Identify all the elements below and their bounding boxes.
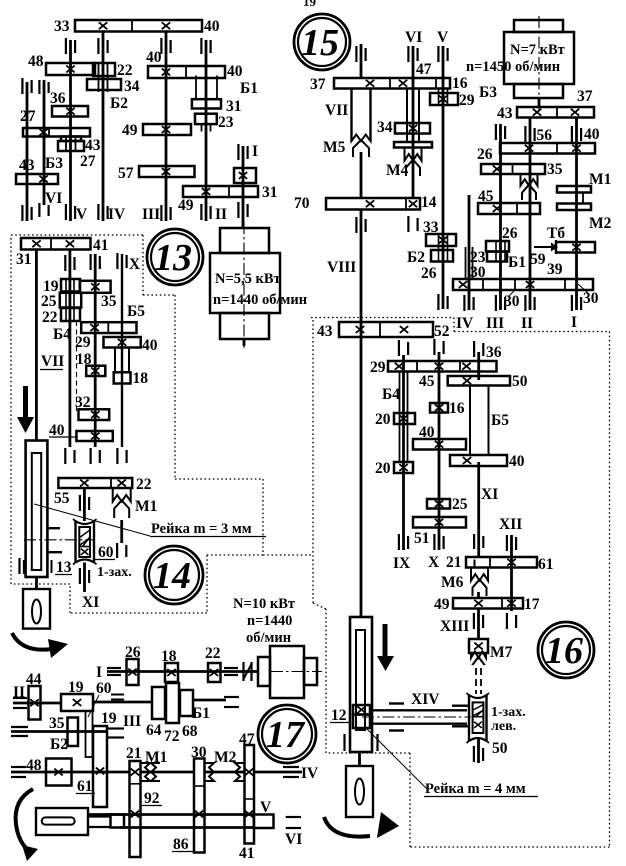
svg-text:20: 20 [375, 411, 391, 428]
svg-text:40: 40 [204, 18, 220, 35]
svg-text:26: 26 [125, 644, 141, 661]
bearing VI top [407, 46, 409, 62]
feed arrow [23, 386, 28, 418]
shaft II end left [13, 697, 27, 699]
gear 35 row [80, 281, 111, 293]
spindle 16 [358, 752, 361, 766]
svg-text:56: 56 [537, 127, 553, 144]
svg-text:34: 34 [124, 78, 140, 95]
svg-text:30: 30 [583, 290, 599, 307]
drum B5 [469, 386, 471, 456]
motor 17 [258, 657, 270, 686]
claw on II-15 [521, 174, 538, 186]
rotation arrow 16 [324, 817, 370, 837]
shaft III-15 [499, 124, 502, 310]
circled 14 [145, 546, 203, 604]
svg-text:X: X [428, 554, 440, 571]
tall gear 30 [194, 759, 205, 853]
gear 20a [394, 413, 415, 424]
worm 16 [468, 695, 470, 741]
gear row 27 [23, 128, 90, 137]
bearing III-15 bottom [495, 295, 497, 311]
shaft XIII upper [477, 592, 480, 598]
leader rack 16 [366, 728, 427, 789]
bearing shaft III bottom [160, 205, 162, 221]
svg-text:61: 61 [77, 778, 93, 795]
svg-text:15: 15 [301, 22, 339, 64]
svg-text:IV: IV [301, 765, 319, 782]
gear 68 [180, 690, 193, 716]
svg-text:VII: VII [325, 102, 348, 119]
claw M1-17 [141, 763, 150, 781]
svg-text:Рейка m = 4 мм: Рейка m = 4 мм [425, 781, 526, 797]
svg-text:55: 55 [54, 490, 70, 507]
M4 sleeve [406, 89, 408, 143]
svg-text:Б3: Б3 [45, 155, 63, 172]
svg-text:18: 18 [133, 370, 149, 387]
shaft II [205, 40, 208, 221]
svg-text:19: 19 [101, 710, 117, 727]
svg-text:Б2: Б2 [50, 736, 68, 753]
svg-text:1-зах.: 1-зах. [97, 565, 132, 580]
gear 18m [86, 366, 105, 376]
svg-text:40: 40 [146, 49, 162, 66]
bearing XI bottom [473, 534, 475, 549]
svg-text:VI: VI [45, 190, 62, 207]
gear block 26 on III [495, 241, 497, 262]
gear 25 [60, 293, 81, 308]
svg-text:40: 40 [584, 126, 600, 143]
svg-text:26: 26 [477, 146, 493, 163]
gear 34 on VI [395, 123, 430, 134]
gear row 40-40 [148, 66, 225, 78]
svg-text:47: 47 [416, 61, 432, 78]
bearing XI lower [79, 568, 81, 584]
gear 40m [76, 431, 112, 441]
svg-text:86: 86 [173, 836, 189, 853]
bearing VII top [355, 46, 357, 62]
svg-text:33: 33 [423, 219, 439, 236]
bearing worm bottom [473, 746, 475, 762]
bearing shaft IV bottom [97, 204, 99, 220]
gear row 49-31 bottom [183, 186, 258, 197]
svg-text:36: 36 [50, 90, 66, 107]
svg-text:22: 22 [117, 62, 133, 79]
svg-text:N=5,5 кВт: N=5,5 кВт [215, 271, 281, 287]
gear Tb row [556, 242, 595, 253]
bearing B4 top [64, 255, 66, 271]
gear 44 [29, 686, 41, 720]
svg-text:XI: XI [481, 486, 498, 503]
gear block 43-27 on V [65, 137, 67, 152]
svg-text:49: 49 [122, 122, 138, 139]
gear 18X [114, 372, 131, 383]
shaft III left end [11, 726, 28, 728]
worm pinion on XI [74, 521, 76, 563]
svg-text:VIII: VIII [327, 259, 356, 276]
circled 17 [258, 705, 316, 763]
gear 43 row [16, 174, 58, 184]
bearing III-15 top [495, 124, 497, 140]
svg-text:27: 27 [80, 153, 96, 170]
svg-text:M1: M1 [589, 171, 611, 188]
dashed shaft link [475, 668, 477, 694]
shaft IV left end [11, 766, 26, 768]
svg-text:II: II [215, 206, 227, 223]
gear 36 [52, 106, 88, 117]
shaft X lower [120, 520, 123, 543]
svg-text:M6: M6 [441, 574, 464, 591]
shaft I [242, 146, 245, 228]
leader 30 left [509, 290, 515, 296]
tall gear 61 [93, 726, 107, 807]
sleeve on IV-15 [465, 247, 467, 279]
bearing V top [437, 46, 439, 62]
shaft III right end [108, 727, 124, 729]
svg-text:22: 22 [205, 645, 221, 662]
svg-text:XIII: XIII [440, 618, 469, 635]
svg-text:37: 37 [310, 76, 326, 93]
spindle 14 [35, 577, 38, 589]
svg-text:V: V [260, 799, 272, 816]
shaft VI-17 line [120, 826, 254, 829]
shaft IX [402, 355, 405, 550]
shaft VIII [360, 210, 363, 618]
svg-text:13: 13 [154, 237, 192, 279]
svg-text:25: 25 [41, 293, 57, 310]
gear row 70-14 [326, 198, 420, 210]
svg-text:92: 92 [144, 790, 160, 807]
svg-text:60: 60 [98, 544, 114, 561]
circled 15 [294, 14, 350, 70]
claw clutch M1 [113, 488, 131, 502]
shaft below worm [477, 738, 480, 763]
svg-text:14: 14 [421, 194, 437, 211]
bearing shaft VI bottom [21, 205, 23, 221]
gear 48-17 [46, 759, 72, 786]
svg-text:Рейка m = 3 мм: Рейка m = 3 мм [151, 521, 252, 537]
gear row 31-41 [21, 238, 91, 250]
svg-text:22: 22 [42, 309, 58, 326]
svg-text:лев.: лев. [491, 719, 516, 734]
svg-text:61: 61 [538, 556, 554, 573]
circled 13 [147, 229, 203, 285]
svg-text:22: 22 [136, 476, 152, 493]
table connector rect [111, 815, 125, 828]
shaft I-17 [107, 670, 258, 673]
shaft VII-15 lower [360, 152, 363, 198]
shaft IV right end [283, 766, 299, 768]
svg-text:Б4: Б4 [382, 386, 400, 403]
gear 22b [61, 308, 80, 321]
svg-text:57: 57 [118, 165, 134, 182]
shaft VIIa mid [94, 254, 97, 447]
svg-text:Б5: Б5 [127, 303, 145, 320]
svg-text:47: 47 [239, 731, 255, 748]
svg-text:23: 23 [218, 114, 234, 131]
svg-text:43: 43 [317, 323, 333, 340]
svg-text:32: 32 [75, 394, 91, 411]
svg-text:26: 26 [421, 265, 437, 282]
clutch M7 [469, 639, 488, 653]
svg-text:34: 34 [377, 119, 393, 136]
svg-text:Б4: Б4 [53, 326, 71, 343]
svg-text:Тб: Тб [547, 225, 565, 242]
shaft XI [477, 352, 480, 380]
bearing aux bottom [38, 203, 40, 217]
bearing X top [116, 253, 118, 269]
feed arrow 16 [383, 624, 388, 657]
rack-pinion bars [47, 527, 60, 529]
svg-text:60: 60 [96, 680, 112, 697]
bearing shaft II bottom [200, 204, 202, 220]
gear 22-17 [208, 663, 221, 682]
gear 49 row [143, 124, 191, 135]
svg-text:30: 30 [504, 293, 520, 310]
leader 30 right [578, 284, 588, 293]
svg-text:VI: VI [405, 29, 422, 46]
svg-text:XII: XII [499, 516, 522, 533]
svg-text:Б5: Б5 [491, 412, 509, 429]
svg-text:18: 18 [76, 351, 92, 368]
shaft VII-15 fork [350, 89, 352, 142]
claw clutch M6 [471, 568, 488, 581]
rack centerline [24, 539, 95, 541]
motor 13 [220, 228, 269, 253]
bearing XII bottom [506, 613, 508, 629]
scheme 13 boundary (dotted) [11, 234, 143, 236]
svg-text:26: 26 [502, 225, 518, 242]
svg-text:14: 14 [153, 555, 191, 597]
shaft III [165, 31, 168, 221]
shaft XIV bar [370, 709, 467, 711]
svg-text:49: 49 [434, 596, 450, 613]
svg-text:29: 29 [459, 92, 475, 109]
shaft XI below worm [83, 563, 86, 593]
svg-text:45: 45 [419, 373, 435, 390]
svg-text:III: III [123, 713, 141, 730]
XIV bearing ticks [389, 702, 404, 704]
claw clutch M4 [405, 148, 422, 161]
claw clutch M5 [352, 128, 371, 141]
svg-text:50: 50 [512, 373, 528, 390]
gear row 29 [81, 322, 136, 333]
shaft XII [510, 535, 513, 611]
bearing mid top [89, 254, 91, 270]
svg-text:Б2: Б2 [110, 95, 128, 112]
svg-text:IX: IX [393, 555, 411, 572]
svg-text:70: 70 [294, 195, 310, 212]
bearing IX bottom [398, 534, 400, 550]
sleeve IX [399, 372, 401, 463]
gear 64 [152, 687, 165, 719]
gear row bottom 15 [453, 279, 593, 290]
shaft I end right [224, 667, 238, 669]
circled 16 [538, 622, 594, 678]
Tb arrow [534, 246, 551, 248]
svg-text:n=1440 об/мин: n=1440 об/мин [213, 292, 307, 308]
svg-text:48: 48 [26, 757, 42, 774]
svg-text:72: 72 [164, 728, 180, 745]
shaft VI [26, 82, 29, 221]
svg-text:N=10 кВт: N=10 кВт [233, 596, 295, 612]
svg-text:M1: M1 [145, 749, 167, 766]
gear 19 [61, 279, 80, 292]
pinion 12 box [353, 705, 370, 715]
svg-text:21: 21 [126, 745, 142, 762]
gear 18-17 [165, 663, 178, 682]
shaft II end right [224, 696, 239, 698]
gear row 35 [481, 164, 545, 174]
tall gear 47 [245, 745, 255, 844]
svg-text:n=1440: n=1440 [247, 613, 292, 629]
bearing X16 top [433, 339, 435, 355]
shaft I end left [107, 667, 121, 669]
svg-text:36: 36 [486, 344, 502, 361]
rotation arrow 17 [16, 789, 33, 852]
bearing IV-15 bottom [463, 295, 465, 311]
bearing mid bottom [89, 448, 91, 464]
gear 22 block [93, 63, 115, 76]
bearing I-15 top [571, 126, 573, 142]
gear 29 on V [438, 89, 440, 106]
svg-text:40: 40 [419, 424, 435, 441]
shaft V-15 [442, 46, 445, 309]
shaft III-17 [11, 730, 108, 733]
gear 51 [413, 517, 466, 528]
svg-text:43: 43 [85, 137, 101, 154]
svg-text:16: 16 [452, 75, 468, 92]
gear row 21-61 [466, 557, 537, 568]
shaft I-15 [575, 118, 578, 311]
svg-text:M4: M4 [386, 162, 409, 179]
bearing II-15 bottom [524, 295, 526, 311]
bearing aux top [38, 80, 40, 94]
svg-text:48: 48 [28, 53, 44, 70]
bevel box on shaft I [234, 168, 256, 183]
svg-text:M7: M7 [490, 644, 513, 661]
gear row 33-40 [75, 20, 202, 32]
svg-text:об/мин: об/мин [246, 630, 291, 646]
shaft IV [102, 31, 105, 221]
svg-text:43: 43 [19, 157, 35, 174]
gear 25b [427, 499, 450, 509]
gear 48 [46, 63, 95, 75]
svg-text:I: I [96, 664, 102, 681]
gear 40 on X [104, 337, 141, 348]
sleeve X [114, 348, 116, 373]
bearing VIII top [355, 217, 357, 233]
bearing shaft II top [200, 38, 202, 54]
motor 15 [514, 20, 563, 32]
svg-text:I: I [571, 314, 577, 331]
shaft XIII lower [477, 609, 480, 640]
bearing X bottom [116, 448, 118, 464]
svg-text:40: 40 [509, 453, 525, 470]
svg-text:1-зах.: 1-зах. [491, 705, 526, 720]
clutch M1-M2 on I [557, 186, 591, 193]
gear 50 [448, 376, 510, 386]
svg-text:IV: IV [108, 206, 126, 223]
shaft V [69, 40, 72, 221]
gear block 33-26 on V [438, 234, 440, 262]
shaft X16 [438, 352, 441, 550]
bearing shaft V top [65, 38, 67, 54]
svg-text:VII: VII [41, 353, 64, 370]
bearing VI bottom [407, 216, 409, 232]
rack quill 14 [26, 441, 48, 578]
svg-text:51: 51 [414, 530, 430, 547]
bearing shaft I bottom [237, 202, 239, 218]
svg-text:16: 16 [449, 400, 465, 417]
svg-text:20: 20 [375, 460, 391, 477]
svg-text:M2: M2 [214, 749, 237, 766]
svg-text:18: 18 [161, 648, 177, 665]
svg-text:59: 59 [530, 251, 546, 268]
svg-text:44: 44 [26, 671, 42, 688]
shaft X14 [121, 254, 123, 447]
sleeve 19b [86, 711, 93, 757]
gear 19 box [61, 694, 93, 711]
gear 72 [166, 683, 179, 723]
svg-text:21: 21 [446, 554, 462, 571]
bearing shaft V bottom [65, 204, 67, 220]
bearing XII top [506, 535, 508, 551]
svg-text:40: 40 [227, 63, 243, 80]
bearing I-15 bottom [571, 295, 573, 311]
svg-text:M5: M5 [323, 139, 346, 156]
svg-text:X: X [129, 256, 141, 273]
svg-text:N=7 кВт: N=7 кВт [510, 42, 565, 58]
svg-text:17: 17 [266, 714, 306, 756]
gear 20b [394, 462, 413, 473]
bearing shaft VI top [21, 78, 23, 94]
elastic coupling [242, 662, 244, 681]
svg-text:I: I [252, 143, 258, 160]
scheme 16 boundary dotted [311, 317, 454, 319]
svg-text:50: 50 [492, 740, 508, 757]
gear 35-17 [68, 718, 79, 747]
svg-text:45: 45 [478, 188, 494, 205]
svg-text:35: 35 [49, 715, 65, 732]
gear 40c [413, 439, 466, 450]
svg-text:30: 30 [191, 744, 207, 761]
svg-text:64: 64 [146, 722, 162, 739]
svg-text:40: 40 [142, 337, 158, 354]
shaft IV-17 [11, 771, 130, 774]
svg-text:33: 33 [54, 18, 70, 35]
bearing IX top [398, 340, 400, 356]
bearing X16 bottom [433, 534, 435, 550]
gear row 55-22 [58, 478, 132, 488]
bearing XI top [473, 341, 475, 357]
svg-text:Б1: Б1 [192, 705, 210, 722]
gear row 49-17 [453, 598, 523, 609]
svg-text:V: V [76, 206, 88, 223]
claw M2-17 [205, 763, 214, 781]
svg-text:VI: VI [285, 831, 302, 848]
svg-text:68: 68 [182, 723, 198, 740]
shaft II-17 [13, 702, 61, 705]
svg-text:Б1: Б1 [508, 254, 526, 271]
bearing X lower [116, 543, 118, 558]
svg-text:37: 37 [577, 88, 593, 105]
bearing shaft III top [160, 38, 162, 54]
svg-text:31: 31 [16, 251, 32, 268]
svg-text:n=1450 об/мин: n=1450 об/мин [466, 59, 560, 75]
table 17 [36, 808, 88, 835]
svg-text:31: 31 [226, 98, 242, 115]
